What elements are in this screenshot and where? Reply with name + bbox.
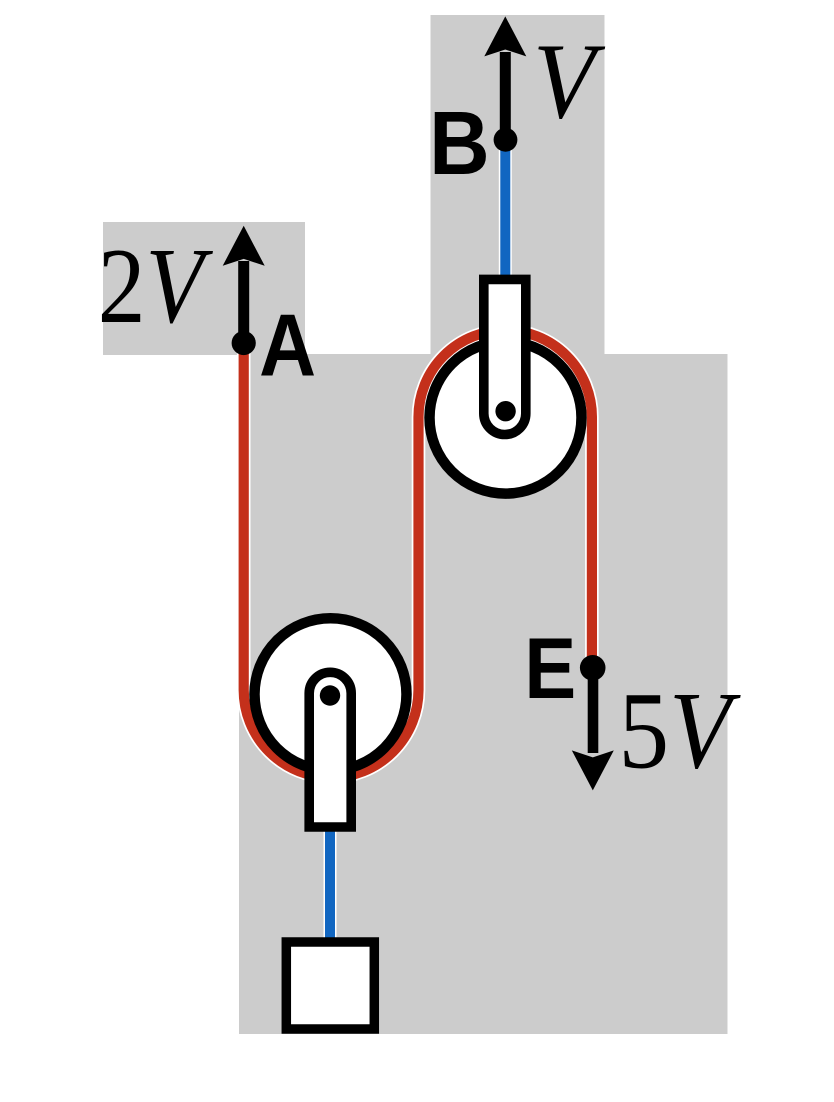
upper pulley wheel — [430, 342, 582, 494]
lower pulley wheel — [255, 618, 407, 770]
svg-text:B: B — [429, 93, 490, 193]
blue cord casing B to upper bracket — [499, 140, 512, 285]
gray block top (around V arrow) — [431, 15, 605, 355]
svg-text:A: A — [259, 295, 316, 394]
arrow 2V shaft — [238, 261, 249, 343]
svg-text:E: E — [524, 621, 576, 717]
arrow 2V head — [223, 226, 265, 266]
arrow 5V shaft — [588, 668, 599, 753]
arrow 5V head — [572, 750, 614, 790]
blue cord lower bracket to mass — [325, 820, 335, 942]
rope (red) from A under lower pulley, over upper pulley, to E — [244, 330, 592, 777]
lower pulley bracket — [309, 672, 351, 827]
svg-text:2V: 2V — [98, 227, 214, 347]
gray block left (around 2V arrow) — [103, 222, 305, 355]
arrow V shaft — [500, 52, 511, 140]
arrow V head — [484, 16, 526, 56]
node B dot — [494, 128, 518, 152]
blue cord B to upper bracket — [500, 140, 510, 285]
node E dot — [580, 655, 606, 681]
upper pulley pivot dot — [495, 401, 515, 421]
rope white casing — [244, 330, 592, 777]
node A dot — [232, 331, 256, 355]
upper pulley bracket — [484, 279, 526, 434]
lower pulley pivot dot — [320, 685, 340, 705]
svg-text:V: V — [533, 21, 606, 141]
svg-text:5V: 5V — [619, 670, 741, 792]
blue cord casing lower bracket to mass — [324, 820, 337, 942]
gray block main — [239, 354, 728, 1034]
hanging mass square — [286, 942, 374, 1029]
